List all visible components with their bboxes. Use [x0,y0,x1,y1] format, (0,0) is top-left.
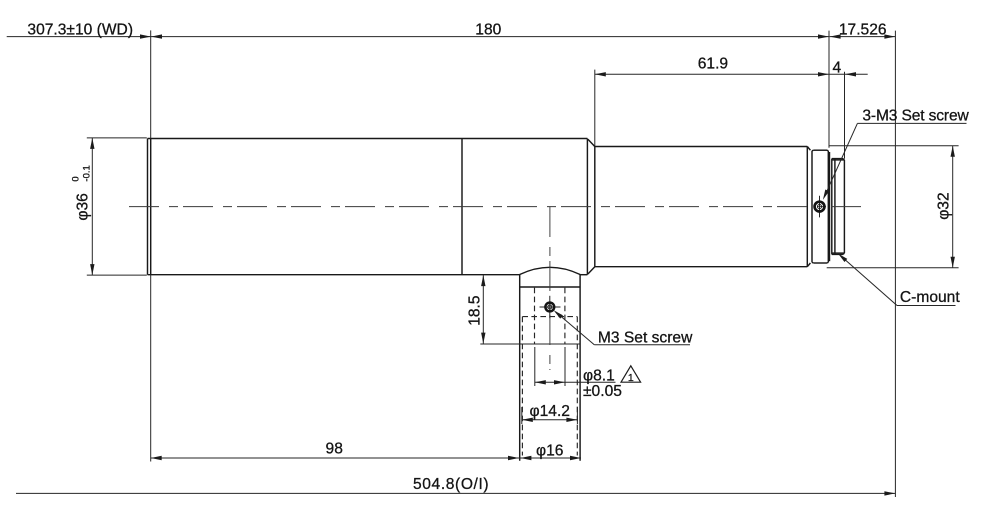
lens barrel main body [148,139,588,275]
svg-text:φ14.2: φ14.2 [530,403,570,420]
svg-text:±0.05: ±0.05 [583,383,622,400]
svg-text:φ16: φ16 [536,442,563,459]
second barrel section [595,147,811,267]
svg-text:17.526: 17.526 [839,22,887,39]
rotated phi32 [935,192,952,219]
centerline horizontal [129,206,862,208]
flange set screw 3-M3 [815,196,825,218]
svg-text:18.5: 18.5 [467,295,484,326]
svg-text:61.9: 61.9 [698,56,728,73]
svg-text:1: 1 [628,372,634,384]
dim phi14.2 [522,407,578,424]
dim 4 [829,72,868,159]
dim 17.526 [830,34,896,38]
centerline port vertical [549,207,551,370]
dim 307.3 line [7,34,151,38]
svg-text:98: 98 [326,441,343,458]
svg-text:-0.1: -0.1 [81,165,92,181]
flange ring [812,150,830,263]
svg-text:4: 4 [832,60,841,77]
dim 504.8 [16,491,895,495]
dim 180 [151,34,829,38]
extension lines top dims [151,30,896,497]
dim phi32 [827,146,959,268]
dim 98 and phi16 baseline [151,275,581,462]
svg-text:180: 180 [475,21,501,38]
svg-text:M3 Set screw: M3 Set screw [598,329,693,346]
chamfer to second section [588,139,595,274]
leader 3-M3 [823,123,967,199]
bottom port tube [520,267,580,460]
dim phi36 [87,138,147,275]
rotated 18.5 [467,295,484,326]
dim phi8.1 [535,347,616,386]
port set screw M3 [540,296,561,318]
rotated phi36 with tolerance [71,165,93,220]
svg-text:3-M3 Set screw: 3-M3 Set screw [862,108,969,125]
leader M3 [554,310,690,345]
svg-text:504.8(O/I): 504.8(O/I) [413,476,489,493]
dim 61.9 [595,70,829,147]
warning triangle 1 [621,366,641,384]
svg-text:C-mount: C-mount [900,289,960,306]
svg-text:0: 0 [71,176,82,181]
svg-text:307.3±10 (WD): 307.3±10 (WD) [27,21,133,38]
dim 18.5 [481,275,485,344]
svg-text:φ32: φ32 [935,192,952,219]
C-mount ring [832,159,845,255]
svg-text:φ36: φ36 [75,193,92,220]
leader C-mount [838,254,956,306]
hidden bore lines [522,288,577,456]
port 18.5 shoulder / extension line [480,343,580,345]
